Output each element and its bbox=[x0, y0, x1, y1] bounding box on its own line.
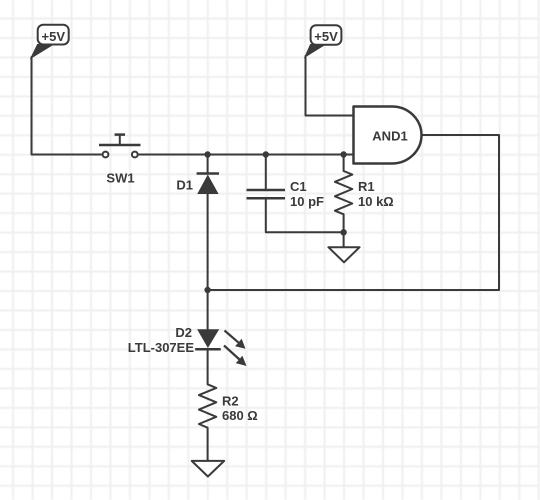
svg-text:LTL-307EE: LTL-307EE bbox=[128, 340, 195, 355]
svg-text:+5V: +5V bbox=[314, 29, 338, 44]
svg-text:+5V: +5V bbox=[42, 29, 66, 44]
svg-text:D1: D1 bbox=[176, 178, 193, 193]
svg-text:SW1: SW1 bbox=[106, 171, 134, 186]
svg-text:10 kΩ: 10 kΩ bbox=[358, 194, 394, 209]
svg-text:680 Ω: 680 Ω bbox=[222, 408, 258, 423]
svg-text:C1: C1 bbox=[290, 179, 307, 194]
svg-text:AND1: AND1 bbox=[372, 128, 407, 143]
svg-text:R2: R2 bbox=[222, 394, 239, 409]
svg-text:10 pF: 10 pF bbox=[290, 194, 324, 209]
svg-text:D2: D2 bbox=[175, 325, 192, 340]
svg-text:R1: R1 bbox=[358, 179, 375, 194]
